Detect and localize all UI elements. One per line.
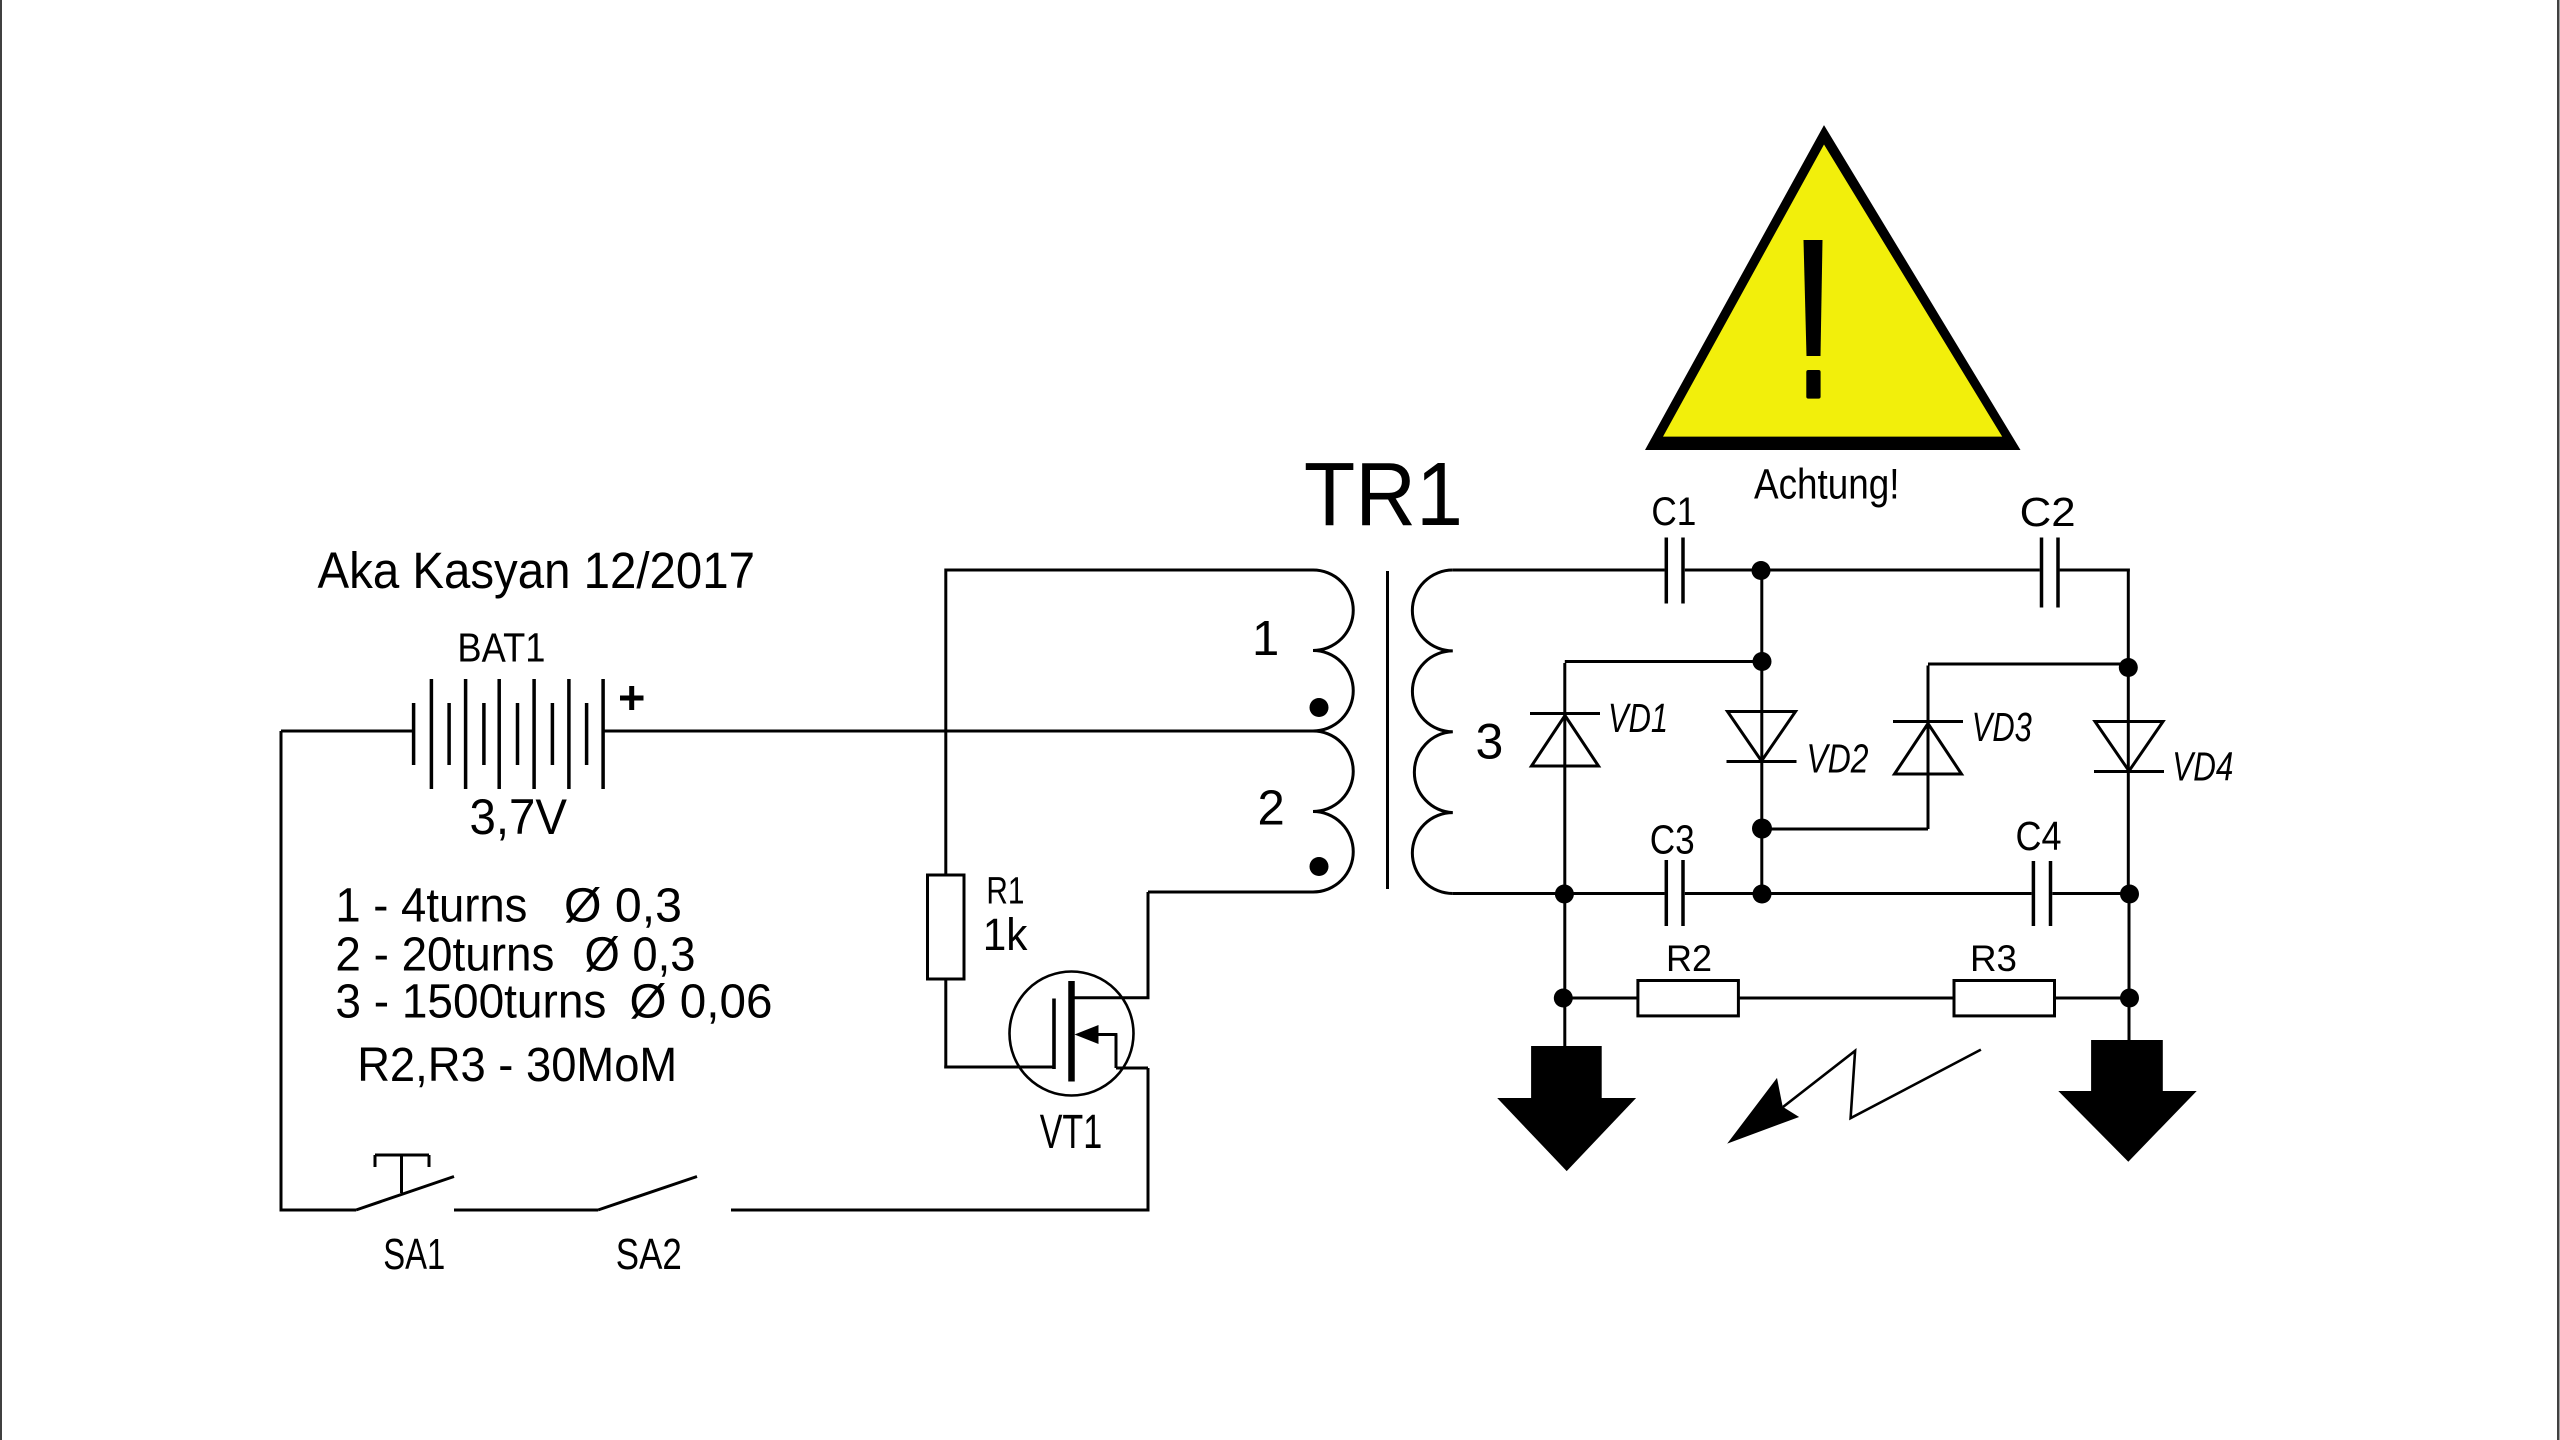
svg-text:1 - 4turns: 1 - 4turns	[335, 879, 527, 932]
svg-text:SA1: SA1	[383, 1230, 445, 1279]
svg-text:R1: R1	[986, 870, 1024, 912]
svg-text:R3: R3	[1970, 937, 2017, 979]
svg-text:C1: C1	[1651, 490, 1696, 534]
svg-text:VD2: VD2	[1807, 736, 1869, 782]
svg-text:Ø 0,3: Ø 0,3	[585, 929, 696, 982]
svg-text:3,7V: 3,7V	[470, 789, 568, 845]
svg-text:SA2: SA2	[616, 1230, 682, 1279]
svg-text:VD1: VD1	[1608, 695, 1668, 741]
svg-text:VD3: VD3	[1972, 704, 2032, 750]
svg-text:Ø 0,3: Ø 0,3	[564, 879, 682, 932]
svg-text:BAT1: BAT1	[457, 624, 545, 670]
svg-text:3 - 1500turns: 3 - 1500turns	[335, 976, 606, 1029]
svg-text:Achtung!: Achtung!	[1754, 461, 1900, 508]
svg-text:1k: 1k	[983, 909, 1028, 960]
svg-text:VT1: VT1	[1040, 1106, 1103, 1159]
svg-text:2: 2	[1258, 782, 1285, 836]
svg-text:1: 1	[1252, 612, 1279, 666]
svg-text:VD4: VD4	[2172, 744, 2233, 790]
svg-text:Ø 0,06: Ø 0,06	[630, 976, 773, 1029]
svg-text:C4: C4	[2016, 813, 2062, 859]
svg-text:C2: C2	[2020, 489, 2076, 535]
svg-text:TR1: TR1	[1304, 445, 1463, 545]
svg-text:Aka Kasyan 12/2017: Aka Kasyan 12/2017	[318, 542, 756, 599]
svg-text:R2: R2	[1666, 937, 1712, 979]
svg-text:2 - 20turns: 2 - 20turns	[335, 929, 554, 982]
svg-text:R2,R3 - 30MoM: R2,R3 - 30MoM	[357, 1039, 677, 1092]
svg-text:C3: C3	[1650, 817, 1695, 863]
svg-text:3: 3	[1476, 713, 1504, 769]
